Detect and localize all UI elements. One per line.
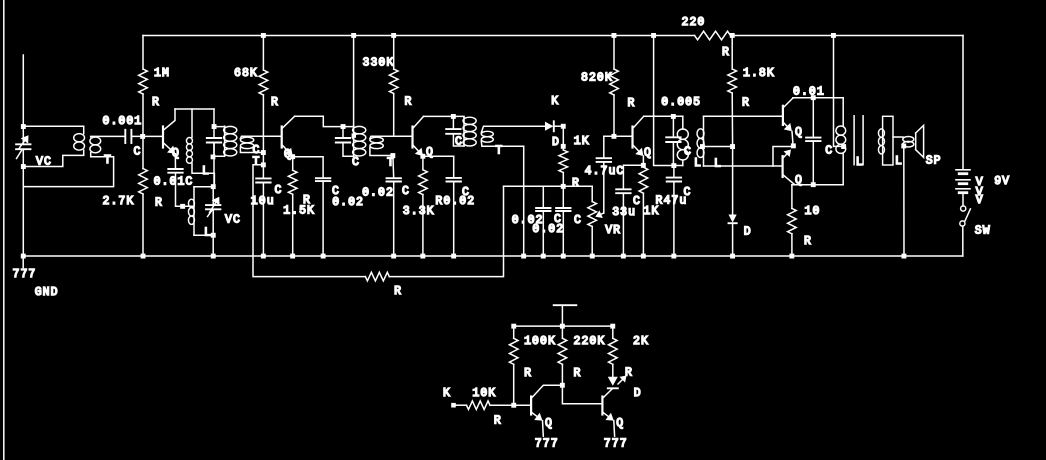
- svg-text:1M: 1M: [154, 67, 170, 80]
- svg-text:0.02: 0.02: [362, 187, 394, 200]
- svg-text:R: R: [405, 95, 413, 108]
- svg-text:0.001: 0.001: [103, 115, 143, 128]
- svg-text:C: C: [462, 186, 470, 199]
- svg-text:SP: SP: [926, 154, 942, 167]
- svg-text:R: R: [155, 196, 163, 209]
- svg-text:777: 777: [13, 268, 37, 281]
- svg-text:L: L: [202, 165, 210, 178]
- svg-text:C: C: [633, 195, 641, 208]
- svg-text:T: T: [495, 144, 503, 157]
- svg-text:VC: VC: [225, 213, 241, 226]
- svg-text:D: D: [552, 136, 560, 149]
- svg-text:10: 10: [805, 205, 821, 218]
- svg-text:V: V: [976, 194, 984, 207]
- svg-text:L: L: [895, 155, 903, 168]
- svg-text:0.01: 0.01: [793, 85, 825, 98]
- svg-text:Q: Q: [795, 174, 803, 187]
- svg-text:100K: 100K: [524, 335, 556, 348]
- svg-text:C: C: [684, 186, 692, 199]
- svg-text:2.7K: 2.7K: [103, 195, 135, 208]
- svg-text:VC: VC: [36, 155, 52, 168]
- svg-text:68K: 68K: [234, 67, 258, 80]
- svg-text:9V: 9V: [994, 175, 1010, 188]
- svg-text:220: 220: [682, 16, 706, 29]
- svg-text:L: L: [714, 157, 722, 170]
- svg-text:R: R: [524, 367, 532, 380]
- svg-text:R: R: [742, 96, 750, 109]
- svg-text:R: R: [303, 194, 311, 207]
- svg-text:1K: 1K: [574, 135, 590, 148]
- svg-text:L: L: [204, 226, 212, 239]
- svg-text:Q: Q: [545, 417, 553, 430]
- svg-text:R: R: [394, 285, 402, 298]
- svg-text:0.02: 0.02: [332, 196, 364, 209]
- svg-text:R: R: [804, 235, 812, 248]
- svg-text:SW: SW: [975, 224, 991, 237]
- svg-text:D: D: [744, 226, 752, 239]
- svg-text:R: R: [152, 96, 160, 109]
- svg-text:C: C: [275, 184, 283, 197]
- svg-text:C: C: [134, 145, 142, 158]
- svg-text:777: 777: [604, 438, 628, 451]
- svg-text:R: R: [271, 96, 279, 109]
- svg-text:330K: 330K: [363, 56, 395, 69]
- svg-text:Q: Q: [795, 126, 803, 139]
- svg-text:10u: 10u: [251, 195, 275, 208]
- svg-text:L: L: [856, 156, 864, 169]
- svg-text:C: C: [352, 156, 360, 169]
- svg-text:K: K: [551, 95, 559, 108]
- svg-text:R: R: [574, 367, 582, 380]
- svg-text:D: D: [634, 387, 642, 400]
- svg-text:0.01C: 0.01C: [154, 176, 194, 189]
- svg-text:Q: Q: [172, 147, 180, 160]
- svg-text:220K: 220K: [574, 335, 606, 348]
- svg-text:R: R: [628, 97, 636, 110]
- svg-text:GND: GND: [35, 286, 59, 299]
- svg-text:10K: 10K: [472, 387, 496, 400]
- svg-text:L: L: [694, 157, 702, 170]
- svg-text:R: R: [625, 366, 633, 379]
- svg-text:Q: Q: [284, 148, 292, 161]
- svg-text:1.8K: 1.8K: [743, 67, 775, 80]
- svg-text:Q: Q: [644, 146, 652, 159]
- svg-text:Q: Q: [616, 417, 624, 430]
- svg-text:777: 777: [535, 438, 559, 451]
- svg-text:0.02: 0.02: [532, 223, 564, 236]
- svg-text:4.7uC: 4.7uC: [585, 165, 625, 178]
- svg-text:T: T: [104, 154, 112, 167]
- svg-text:0.005: 0.005: [661, 96, 701, 109]
- svg-text:Q: Q: [426, 146, 434, 159]
- svg-text:T: T: [387, 156, 395, 169]
- svg-text:2K: 2K: [633, 335, 649, 348]
- svg-text:VR: VR: [605, 224, 621, 237]
- svg-text:C: C: [684, 145, 692, 158]
- svg-text:C: C: [825, 144, 833, 157]
- svg-text:T: T: [253, 156, 261, 169]
- svg-text:C: C: [574, 214, 582, 227]
- svg-text:R: R: [722, 46, 730, 59]
- svg-text:R: R: [494, 415, 502, 428]
- svg-text:R: R: [572, 177, 580, 190]
- svg-text:C: C: [402, 185, 410, 198]
- svg-text:C: C: [455, 135, 463, 148]
- svg-text:3.3K: 3.3K: [403, 205, 435, 218]
- svg-text:820K: 820K: [581, 71, 613, 84]
- svg-text:K: K: [443, 387, 451, 400]
